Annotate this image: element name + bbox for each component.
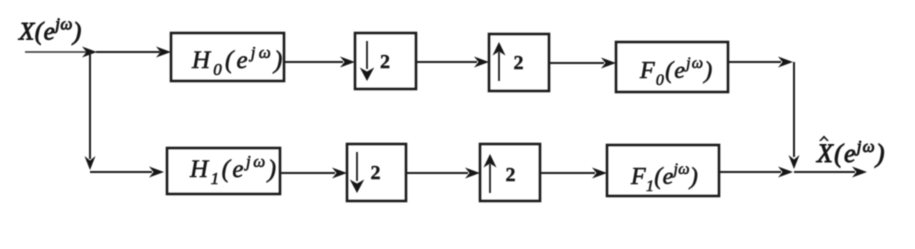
svg-text:X(ejω): X(ejω) xyxy=(18,15,82,46)
arrowhead at branch node xyxy=(82,47,97,58)
arrowhead into F0 xyxy=(601,58,616,69)
svg-text:2: 2 xyxy=(506,164,516,186)
wire upsampler to F1 xyxy=(540,172,595,174)
upsampler block (bottom, up-arrow 2) xyxy=(480,144,540,201)
downsampler block (bottom, down-arrow 2) xyxy=(347,144,406,201)
filter block H1 xyxy=(167,148,280,194)
arrowhead into downsampler (top) xyxy=(340,57,355,68)
svg-text:2: 2 xyxy=(371,162,381,184)
wire upsampler to F0 xyxy=(549,62,604,64)
arrowhead into H0 xyxy=(156,47,171,58)
svg-text:F1(ejω): F1(ejω) xyxy=(630,161,698,195)
wire F0 to right corner xyxy=(728,61,781,63)
node input label X(e^jw) xyxy=(18,15,82,46)
arrowhead down into summing node xyxy=(789,155,800,169)
wire lower-branch corner to H1 xyxy=(90,171,152,173)
wire output segment xyxy=(794,171,855,173)
wire branch to H0 xyxy=(96,51,160,53)
arrowhead into F1 xyxy=(592,168,607,179)
arrowhead into H1 xyxy=(149,167,164,178)
wire H1 to downsampler (bottom) xyxy=(280,172,335,174)
downsampler block (top, down-arrow 2) xyxy=(355,33,416,89)
svg-text:H0(ejω): H0(ejω) xyxy=(191,43,285,79)
arrowhead into summing node from left xyxy=(778,167,793,178)
arrowhead into upsampler (bottom) xyxy=(465,168,480,179)
arrowhead down at lower branch corner xyxy=(85,156,96,170)
upsampler block (top, up-arrow 2) xyxy=(489,34,549,91)
wire downsampler to upsampler (top) xyxy=(416,61,477,63)
node branch junction: vertical wire down to lower path xyxy=(89,52,91,159)
arrowhead output xyxy=(852,167,867,178)
filter block H0 xyxy=(171,33,285,81)
wire input segment xyxy=(25,51,88,53)
arrowhead at top-right corner xyxy=(778,57,793,68)
svg-text:H1(ejω): H1(ejω) xyxy=(189,152,279,188)
svg-text:2: 2 xyxy=(514,52,524,74)
wire downsampler to upsampler (bottom) xyxy=(406,172,468,174)
vertical wire down to summing node xyxy=(793,62,795,157)
svg-text:F0(ejω): F0(ejω) xyxy=(639,55,713,89)
filter block F0 xyxy=(616,42,728,92)
wire F1 to summing node xyxy=(719,171,781,173)
svg-text:2: 2 xyxy=(380,51,390,73)
arrowhead into upsampler (top) xyxy=(474,57,489,68)
node output label Xhat(e^jw) xyxy=(816,136,886,169)
filter block F1 xyxy=(607,145,719,196)
arrowhead into downsampler (bottom) xyxy=(332,168,347,179)
svg-text:X(ejω): X(ejω) xyxy=(816,137,886,168)
wire H0 to downsampler xyxy=(284,61,343,63)
